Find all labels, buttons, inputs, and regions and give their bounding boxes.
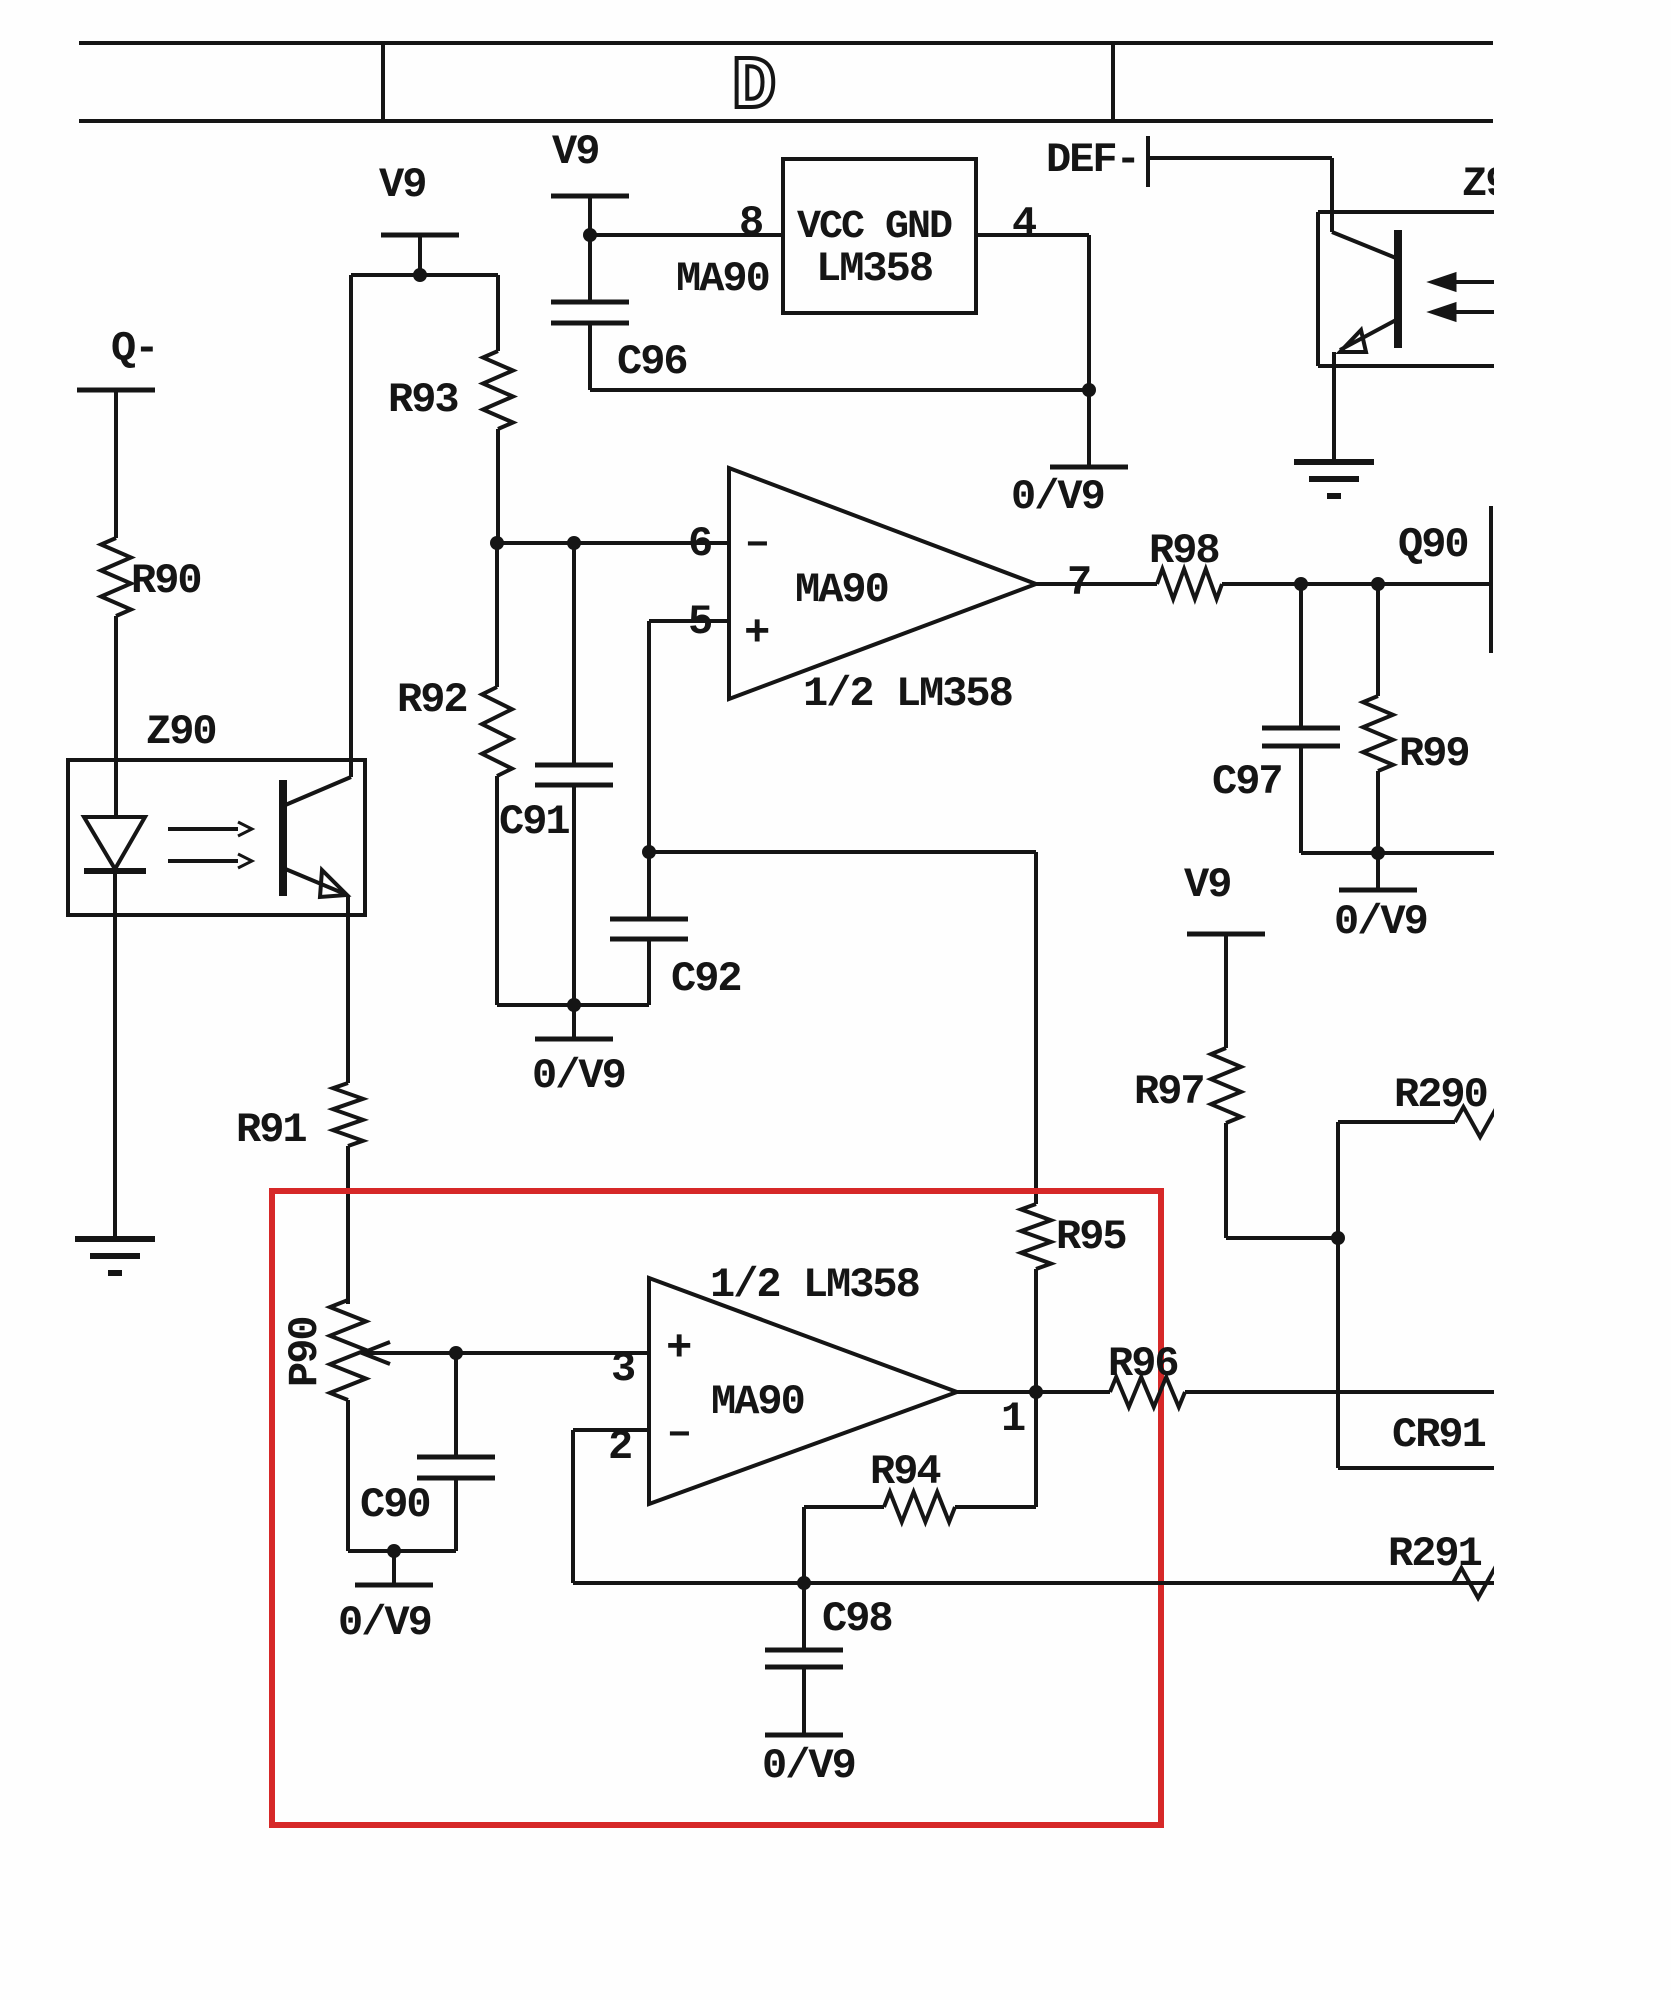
wire V9 node horizontal [351, 273, 498, 277]
wire pin 2 stub [573, 1428, 649, 1432]
wire DEF- horizontal [1148, 156, 1332, 160]
svg-text:D: D [732, 46, 776, 130]
wire V9 node down to Z90 collector [349, 275, 353, 777]
wire R91 to P90 [346, 1146, 350, 1304]
wire R97 to node [1226, 1236, 1338, 1240]
svg-text:−: − [668, 1415, 691, 1458]
power tap V9 (right) [1187, 932, 1265, 937]
capacitor C90 [417, 1455, 495, 1460]
wire R94 left lead [804, 1505, 884, 1509]
junction R97/R290/CR91 [1331, 1231, 1345, 1245]
svg-text:R90: R90 [131, 557, 201, 605]
svg-text:C96: C96 [617, 338, 687, 386]
resistor R90 [101, 538, 131, 616]
resistor R96 [1110, 1377, 1185, 1407]
wire to R96 [1036, 1390, 1110, 1394]
transistor Z9 phototransistor [1394, 230, 1402, 348]
svg-text:C97: C97 [1212, 758, 1282, 806]
junction R94/C98/feedback [797, 1576, 811, 1590]
svg-text:R290: R290 [1394, 1071, 1487, 1119]
wire 0/V9 stub (R99) [1376, 853, 1380, 890]
wire down to R95 [1034, 852, 1038, 1204]
optocoupler Z90 box [68, 760, 365, 915]
rail tap 0/V9 (mid) [535, 1037, 613, 1042]
junction C91 top [567, 536, 581, 550]
wire Q90 vertical (page cut) [1489, 506, 1493, 653]
junction R99/0V9 [1371, 846, 1385, 860]
svg-text:0/V9: 0/V9 [762, 1742, 855, 1790]
emitter arrowhead Z90 [320, 870, 347, 897]
svg-text:R97: R97 [1134, 1068, 1204, 1116]
wire C92 top lead [647, 852, 651, 919]
svg-text:V9: V9 [1184, 861, 1230, 909]
wire U1 output to R98 [1036, 582, 1157, 586]
op-amp power box MA90 LM358 [783, 159, 976, 313]
svg-text:8: 8 [739, 199, 762, 247]
junction pin5/C92/R95 [642, 845, 656, 859]
junction V9/R93/Z90 node [413, 268, 427, 282]
wire 0/V9 stub [1087, 390, 1091, 467]
resistor R98 [1157, 569, 1222, 599]
resistor R291 (page cut) [1453, 1568, 1520, 1598]
wire R94 right lead [955, 1505, 1036, 1509]
svg-text:R91: R91 [236, 1106, 306, 1154]
wire R290 lead [1338, 1120, 1455, 1124]
junction C91/R92/C92/0V9 [567, 998, 581, 1012]
wire R97 bottom lead [1224, 1123, 1228, 1238]
wire pin 4 down [1087, 235, 1091, 390]
wire up to R290 [1336, 1122, 1340, 1238]
svg-text:R93: R93 [388, 376, 458, 424]
wire Z90 emitter to R91 [346, 895, 350, 1083]
wire P90 bottom lead [346, 1400, 350, 1551]
svg-text:0/V9: 0/V9 [532, 1052, 625, 1100]
resistor R99 [1363, 696, 1393, 771]
rail tap 0/V9 (R99) [1339, 888, 1417, 893]
wire Z9 emitter to ground [1332, 352, 1336, 462]
wire DEF- terminal tick [1146, 136, 1150, 187]
svg-text:+: + [744, 609, 770, 659]
wire C90 top lead [454, 1353, 458, 1457]
wire V9 to R97 [1224, 934, 1228, 1048]
capacitor C98 [765, 1648, 843, 1653]
svg-text:C92: C92 [671, 955, 741, 1003]
wire Q- to R90 [114, 390, 118, 538]
ground (Z9 emitter) [1294, 459, 1374, 465]
wire C98 bottom lead [802, 1667, 806, 1735]
rail tap 0/V9 (pin4) [1050, 465, 1128, 470]
op-amp U2 MA90 1/2 LM358 [649, 1278, 957, 1504]
junction out/R95/R94/R96 [1029, 1385, 1043, 1399]
svg-text:DEF-: DEF- [1046, 136, 1139, 184]
svg-text:R291: R291 [1388, 1530, 1482, 1578]
wire R99 top lead [1376, 584, 1380, 696]
op-amp U1 MA90 1/2 LM358 [729, 468, 1036, 699]
P90 wiper arrow [362, 1351, 649, 1355]
svg-text:1/2 LM358: 1/2 LM358 [803, 670, 1012, 718]
junction R93/R92/pin6 [490, 536, 504, 550]
svg-text:P90: P90 [281, 1317, 329, 1387]
wire header top rule [79, 41, 1493, 45]
resistor R94 [884, 1492, 955, 1522]
svg-text:VCC GND: VCC GND [797, 205, 952, 250]
rail tap 0/V9 (C98) [765, 1733, 843, 1738]
wire R93 bottom lead [496, 429, 500, 543]
svg-text:V9: V9 [379, 161, 425, 209]
power tap V9 (above C96) [551, 194, 629, 199]
wire down to R94 [1034, 1392, 1038, 1507]
svg-text:4: 4 [1012, 200, 1036, 248]
svg-text:0/V9: 0/V9 [1334, 898, 1427, 946]
capacitor C92 [610, 917, 688, 922]
terminal Q- [77, 388, 155, 393]
wire C92 to 0/V9 node [574, 1003, 649, 1007]
svg-text:MA90: MA90 [711, 1378, 804, 1426]
svg-text:MA90: MA90 [795, 566, 888, 614]
wire pin 6 input [497, 541, 729, 545]
ground (Z90 LED) [75, 1236, 155, 1242]
resistor R95 [1021, 1204, 1051, 1269]
rail tap 0/V9 (C90) [355, 1583, 433, 1588]
svg-text:R96: R96 [1108, 1340, 1178, 1388]
wire R99 bottom lead [1376, 771, 1380, 853]
wire 0/V9 stub (C90) [392, 1551, 396, 1585]
wire C97 top lead [1299, 584, 1303, 728]
svg-text:Q-: Q- [111, 325, 157, 373]
wire R94 to C98 node [802, 1507, 806, 1583]
svg-text:C90: C90 [360, 1481, 430, 1529]
svg-text:R95: R95 [1056, 1213, 1126, 1261]
capacitor C97 [1262, 726, 1340, 731]
wire V9 stub [418, 235, 422, 275]
svg-text:Q90: Q90 [1398, 521, 1468, 569]
wire pin5 node to R95 [649, 850, 1036, 854]
highlight box (red) [272, 1191, 1161, 1825]
light arrows Z90 [168, 827, 238, 831]
svg-text:−: − [746, 525, 769, 568]
resistor R93 [483, 351, 513, 429]
power tap V9 (left) [381, 233, 459, 238]
wire R95 bottom lead [1034, 1269, 1038, 1392]
junction R99 [1371, 577, 1385, 591]
svg-text:C91: C91 [499, 798, 569, 846]
svg-text:LM358: LM358 [816, 245, 932, 293]
svg-text:R94: R94 [870, 1448, 940, 1496]
wire LED cathode to ground [113, 871, 117, 1239]
wire R98 to Q90 node [1222, 582, 1491, 586]
wire header zone tick left [381, 43, 385, 121]
wire Z9 box left [1316, 212, 1320, 366]
wire C90 bottom lead [454, 1478, 458, 1551]
phototransistor Z90 [279, 780, 287, 896]
wire C97 bottom lead [1299, 746, 1303, 853]
wire header bottom rule [79, 119, 1493, 123]
resistor R91 [333, 1083, 363, 1146]
wire C92 bottom lead [647, 939, 651, 1005]
svg-text:1: 1 [1001, 1395, 1025, 1443]
svg-text:Z90: Z90 [146, 708, 216, 756]
junction pin4/C96/0V9 [1082, 383, 1096, 397]
wire 0/V9 stub (mid) [572, 1005, 576, 1039]
wire Z9 box bottom [1318, 364, 1500, 368]
wire C96 to 0/V9 node [590, 388, 1089, 392]
wire C96 top lead [588, 235, 592, 302]
potentiometer P90 [330, 1300, 366, 1400]
wire pin 2 down [571, 1430, 575, 1583]
resistor R290 (page cut) [1455, 1107, 1522, 1137]
svg-text:V9: V9 [552, 128, 598, 176]
wire R93 top lead [496, 275, 500, 351]
wire C91 top lead [572, 543, 576, 765]
capacitor C96 [551, 300, 629, 305]
wire P90/C90 bottom node [348, 1549, 456, 1553]
wire CR91 vertical [1336, 1238, 1340, 1468]
svg-text:C98: C98 [822, 1595, 892, 1643]
wire V9 stub to pin8 node [588, 196, 592, 235]
junction C97 [1294, 577, 1308, 591]
wire pin 4 lead [976, 233, 1089, 237]
svg-text:1/2 LM358: 1/2 LM358 [710, 1261, 919, 1309]
svg-text:0/V9: 0/V9 [1011, 473, 1104, 521]
svg-text:R92: R92 [397, 676, 467, 724]
wire C97/R99 bottom node [1301, 851, 1500, 855]
wire CR91 net to page edge [1338, 1466, 1500, 1470]
wire R92 top lead [495, 543, 499, 687]
resistor R97 [1211, 1048, 1241, 1123]
wire DEF- down to Z9 [1330, 158, 1334, 232]
wire R96 to page edge [1185, 1390, 1500, 1394]
svg-text:+: + [666, 1324, 692, 1374]
wire header zone tick right [1111, 43, 1115, 121]
wire U2 output [957, 1390, 1036, 1394]
wire R92 to 0/V9 node [497, 1003, 574, 1007]
wire C96 bottom lead [588, 323, 592, 390]
svg-text:CR91: CR91 [1392, 1411, 1486, 1459]
wire feedback/R291 net [573, 1581, 1500, 1585]
emitter arrowhead Z9 [1340, 330, 1366, 352]
wire Z9 box top [1318, 210, 1500, 214]
wire R90 to LED [114, 616, 118, 817]
svg-text:0/V9: 0/V9 [338, 1599, 431, 1647]
wire to LM358 pin 8 [590, 233, 783, 237]
svg-text:MA90: MA90 [676, 255, 769, 303]
junction C90/0V9 [387, 1544, 401, 1558]
capacitor C91 [535, 763, 613, 768]
junction V9/C96/pin8 [583, 228, 597, 242]
svg-text:3: 3 [611, 1345, 635, 1393]
resistor R92 [482, 687, 512, 776]
light arrows into Z9 [1454, 280, 1500, 284]
svg-text:R99: R99 [1399, 730, 1469, 778]
wire pin 5 down [647, 621, 651, 852]
LED Z90 [84, 817, 145, 869]
junction P90 wiper/C90 [449, 1346, 463, 1360]
svg-text:R98: R98 [1149, 527, 1219, 575]
wire C98 top lead [802, 1583, 806, 1650]
wire pin 5 stub [649, 619, 729, 623]
wire C91 bottom lead [572, 785, 576, 1005]
wire R92 bottom lead [495, 776, 499, 1005]
